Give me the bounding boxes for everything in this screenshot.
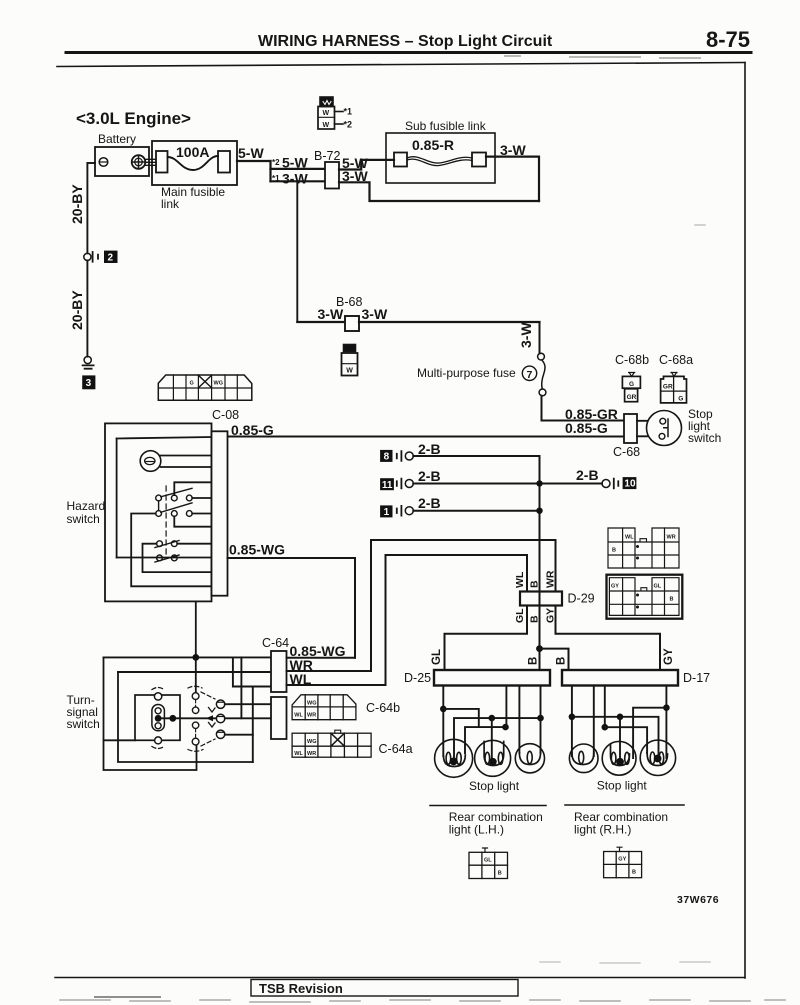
wire H1 to contact 2 column bbox=[240, 657, 242, 718]
svg-text:C-68a: C-68a bbox=[659, 353, 693, 367]
svg-text:TSB Revision: TSB Revision bbox=[259, 981, 343, 996]
arrow contact 1 bbox=[216, 700, 224, 708]
inner boundary left/bottom bbox=[118, 672, 253, 762]
sub fusible element wavy bbox=[407, 157, 472, 163]
svg-text:3: 3 bbox=[86, 378, 92, 389]
footer rule bbox=[55, 977, 745, 979]
lamp wires bbox=[161, 456, 212, 468]
svg-text:0.85-G: 0.85-G bbox=[565, 420, 608, 436]
wire B through D-29 down bbox=[539, 606, 541, 671]
svg-text:3-W: 3-W bbox=[362, 306, 388, 322]
wire GY to D-17 bbox=[556, 606, 661, 671]
TSB Revision box bbox=[251, 980, 518, 997]
stop light bulb 2 bbox=[475, 740, 511, 776]
eyelet row 10 bbox=[602, 480, 610, 488]
stop light switch SW1 bbox=[647, 411, 682, 446]
page border top bbox=[57, 63, 745, 67]
LH pin wire to bulb3 bbox=[518, 686, 520, 754]
pill contacts bbox=[155, 708, 161, 714]
ground ref marker 1 bbox=[380, 505, 392, 517]
bracket RH bbox=[565, 804, 684, 806]
LH ground bus bbox=[454, 718, 541, 761]
svg-text:GL: GL bbox=[654, 584, 662, 590]
linkage dashed bbox=[165, 486, 167, 558]
contact 1 wire bbox=[225, 703, 271, 705]
svg-text:GR: GR bbox=[663, 383, 673, 390]
LH dot B pin bbox=[537, 715, 544, 722]
fusible element wavy bbox=[168, 156, 219, 170]
wire 20-BY upper bbox=[86, 163, 88, 253]
hazard switch contacts upper bbox=[156, 495, 162, 501]
svg-text:*2: *2 bbox=[344, 120, 353, 130]
wire hazard to turn signal bbox=[195, 601, 197, 692]
hazard connector bar bbox=[212, 431, 228, 595]
hazard lamp L1 bbox=[140, 451, 161, 472]
slider bottom contact bbox=[155, 737, 162, 744]
eyelet row 11 bbox=[397, 479, 402, 489]
stop light bulb 1 bbox=[435, 739, 473, 777]
pivot dashed links bbox=[195, 700, 197, 738]
wires C-68 to switch bbox=[637, 421, 647, 437]
svg-text:WL: WL bbox=[625, 535, 634, 541]
LH pin wire bbox=[505, 686, 507, 728]
pivot column circles bbox=[192, 693, 199, 700]
svg-text:3-W: 3-W bbox=[342, 168, 368, 184]
svg-text:*1: *1 bbox=[272, 174, 280, 183]
svg-text:B: B bbox=[556, 657, 568, 665]
wire split node bbox=[269, 161, 271, 181]
RH junction dot bbox=[569, 714, 576, 721]
LH B pin wire bbox=[540, 686, 542, 754]
svg-text:3-W: 3-W bbox=[518, 322, 534, 348]
stop light bulb 3 bbox=[515, 744, 544, 773]
circled 7 bbox=[522, 366, 536, 380]
wire GL to D-25 bbox=[445, 606, 528, 671]
LH jog wire bbox=[443, 709, 479, 727]
sub fusible link box bbox=[386, 133, 495, 183]
RH dot bulb5 feed bbox=[617, 714, 624, 721]
stop light bulb 5 bbox=[602, 741, 636, 775]
page border right bbox=[744, 63, 746, 979]
svg-text:B: B bbox=[528, 657, 540, 665]
multi-purpose fuse symbol bbox=[538, 353, 545, 360]
wire 3-W right of B-72 bbox=[339, 182, 539, 201]
ground ref marker 2 bbox=[104, 251, 118, 263]
battery minus terminal bbox=[99, 158, 108, 167]
turn signal slider box bbox=[135, 695, 180, 740]
pin icon rear combination LH bbox=[469, 848, 508, 879]
hazard switch contacts lower bbox=[157, 541, 163, 547]
svg-text:1: 1 bbox=[384, 507, 390, 518]
wire to C-64 pin1 bbox=[104, 656, 272, 658]
wire jog to contact 3 bbox=[252, 687, 254, 763]
connector D-17 bbox=[562, 670, 678, 686]
svg-text:switch: switch bbox=[67, 717, 100, 731]
svg-text:2-B: 2-B bbox=[418, 468, 441, 484]
svg-text:37W676: 37W676 bbox=[677, 894, 719, 906]
ground ref marker 11 bbox=[380, 478, 394, 490]
svg-text:B-72: B-72 bbox=[314, 149, 340, 163]
main fusible link right terminal bbox=[218, 151, 230, 173]
pin grid icon C-64a bbox=[292, 730, 371, 757]
RH ground bus bbox=[572, 717, 659, 758]
wire B branch to D-17 bbox=[540, 649, 569, 670]
connector icon C-68b bbox=[629, 373, 635, 377]
contact 3 wire bbox=[225, 734, 253, 736]
svg-text:0.85-G: 0.85-G bbox=[231, 422, 274, 438]
wire 2-B to ground 10 bbox=[540, 483, 603, 485]
wire WR from C-64 bbox=[287, 670, 372, 672]
wire 0.85-G inside hazard bbox=[117, 437, 212, 439]
svg-text:D-25: D-25 bbox=[404, 671, 431, 685]
svg-text:switch: switch bbox=[688, 431, 721, 445]
wire 3-W down to multi-purpose fuse bbox=[539, 322, 541, 353]
eyelet row 8 bbox=[397, 451, 402, 461]
wire battery negative to left bbox=[87, 162, 95, 164]
battery B1 bbox=[95, 147, 149, 176]
connector C-64 lower bar bbox=[271, 697, 287, 739]
pin icon rear combination RH bbox=[604, 847, 642, 878]
junction dot bbox=[536, 480, 542, 486]
wire *1 3-W branch bbox=[271, 180, 326, 182]
svg-text:20-BY: 20-BY bbox=[69, 290, 85, 330]
svg-text:link: link bbox=[161, 197, 180, 211]
svg-text:C-64: C-64 bbox=[262, 636, 289, 650]
svg-text:WL: WL bbox=[290, 671, 312, 687]
wire into B-68 bbox=[297, 321, 345, 323]
svg-text:GR: GR bbox=[627, 394, 637, 401]
svg-text:WR: WR bbox=[667, 535, 676, 541]
svg-text:WR: WR bbox=[545, 570, 557, 588]
wire B trunk down bbox=[539, 456, 541, 592]
battery to fusible link bus bbox=[146, 159, 157, 165]
wire row 11 bbox=[413, 483, 539, 485]
svg-text:G: G bbox=[629, 381, 634, 388]
slider pill bbox=[152, 705, 165, 731]
connector B-72 bbox=[325, 162, 339, 189]
svg-text:B: B bbox=[529, 580, 541, 588]
svg-text:GL: GL bbox=[514, 608, 526, 623]
connector pin icon below B-68 bbox=[344, 345, 356, 352]
junction dot bbox=[192, 654, 199, 661]
wire 3-W from sub fusible link bbox=[486, 157, 539, 201]
svg-text:10: 10 bbox=[624, 479, 636, 490]
sub fusible right terminal bbox=[472, 153, 486, 167]
wire WL from C-64 bbox=[287, 684, 386, 686]
svg-text:100A: 100A bbox=[176, 144, 209, 160]
connector D-25 bbox=[434, 670, 550, 686]
svg-text:2-B: 2-B bbox=[576, 467, 599, 483]
svg-text:D-29: D-29 bbox=[568, 592, 595, 606]
pin grid icon D-25/D-17 bbox=[607, 575, 683, 619]
stop light bulb 6 bbox=[640, 740, 675, 775]
wire row 8 bbox=[413, 455, 539, 457]
hazard switch outer box bbox=[105, 423, 212, 601]
switch blades upper bbox=[161, 488, 192, 512]
svg-text:<3.0L Engine>: <3.0L Engine> bbox=[76, 109, 191, 128]
svg-text:B: B bbox=[632, 870, 636, 876]
svg-text:Sub fusible link: Sub fusible link bbox=[405, 119, 487, 133]
wire pill to contact 2 with arrow bbox=[162, 717, 217, 719]
svg-text:C-64a: C-64a bbox=[379, 742, 413, 756]
svg-text:8-75: 8-75 bbox=[706, 27, 750, 52]
svg-text:20-BY: 20-BY bbox=[69, 184, 85, 224]
wire WL riser bbox=[386, 555, 528, 685]
RH pin wire w/ branch bbox=[604, 686, 606, 728]
svg-text:3-W: 3-W bbox=[282, 171, 308, 187]
svg-text:Hazard: Hazard bbox=[67, 499, 106, 513]
svg-text:WG: WG bbox=[214, 380, 223, 386]
svg-text:Battery: Battery bbox=[98, 132, 136, 146]
svg-text:2-B: 2-B bbox=[418, 495, 441, 511]
ground ref marker 8 bbox=[380, 450, 392, 462]
pin grid icon D-29 bbox=[608, 528, 679, 568]
connector D-29 bbox=[520, 592, 562, 606]
svg-text:light (L.H.): light (L.H.) bbox=[449, 823, 504, 837]
wire row 1 bbox=[413, 510, 539, 512]
arrow contact 2 bbox=[216, 714, 224, 722]
svg-text:*2: *2 bbox=[272, 158, 280, 167]
svg-text:WL: WL bbox=[514, 571, 526, 588]
title underline bbox=[66, 51, 751, 54]
scan noise bottom bbox=[60, 1000, 785, 1002]
svg-text:light (R.H.): light (R.H.) bbox=[574, 823, 631, 837]
wire WL jog bbox=[233, 657, 271, 686]
dashed guide arcs bbox=[188, 686, 202, 688]
svg-text:GY: GY bbox=[618, 857, 626, 863]
main fusible link left terminal bbox=[156, 151, 168, 173]
wire 20-BY lower bbox=[86, 261, 88, 357]
svg-text:W: W bbox=[323, 122, 330, 129]
RH pin wire bulb4 bbox=[593, 686, 595, 757]
wire 3-W down to B-68 bbox=[296, 181, 298, 322]
svg-text:GY: GY bbox=[663, 648, 675, 665]
wire to C-64 pin2 / inner top bbox=[118, 671, 271, 673]
ground ref marker 3 bbox=[82, 375, 95, 389]
eyelet row 1 bbox=[397, 506, 402, 516]
svg-text:G: G bbox=[678, 396, 683, 403]
battery plus terminal bbox=[132, 155, 146, 169]
LH junction dot bbox=[502, 724, 509, 731]
svg-text:WG: WG bbox=[307, 701, 316, 707]
pin grid icon C-64b bbox=[292, 695, 356, 720]
wire B-68 to fuse column bbox=[359, 321, 540, 323]
connector C-68 bbox=[624, 414, 637, 443]
svg-text:11: 11 bbox=[382, 480, 393, 491]
svg-text:GL: GL bbox=[431, 649, 443, 665]
svg-text:7: 7 bbox=[527, 369, 533, 381]
switch blades lower bbox=[155, 541, 179, 563]
wire 0.85-G hazard to C-68 bbox=[228, 436, 625, 438]
wire B inside D-29 bbox=[539, 592, 541, 606]
wire 0.85-WG output bbox=[228, 558, 356, 658]
dashed diagonals bbox=[201, 692, 215, 699]
body ground eyelet 3 bbox=[84, 356, 91, 363]
ground ref marker 10 bbox=[623, 477, 637, 489]
wire WR riser bbox=[371, 540, 556, 671]
svg-text:WL: WL bbox=[294, 713, 303, 719]
svg-text:GL: GL bbox=[484, 858, 492, 864]
contact 2 wire bbox=[225, 717, 271, 719]
wire 0.85-WG from C-64 bbox=[287, 657, 356, 659]
svg-text:8: 8 bbox=[384, 452, 390, 463]
svg-text:WIRING HARNESS – Stop Light Ci: WIRING HARNESS – Stop Light Circuit bbox=[258, 33, 553, 50]
svg-text:5-W: 5-W bbox=[282, 155, 308, 171]
bracket LH bbox=[430, 805, 546, 807]
wire 5-W from main fusible link bbox=[237, 160, 271, 162]
svg-text:2-B: 2-B bbox=[418, 441, 441, 457]
svg-text:WL: WL bbox=[294, 751, 303, 757]
svg-text:2: 2 bbox=[108, 252, 114, 263]
wires upper group bbox=[174, 482, 211, 495]
svg-text:G: G bbox=[190, 380, 194, 386]
wire 0.85-WG inside hazard bbox=[117, 557, 212, 559]
svg-text:Stop light: Stop light bbox=[469, 779, 520, 793]
LH branch wire bbox=[465, 727, 506, 753]
svg-text:0.85-R: 0.85-R bbox=[412, 137, 454, 153]
junction dot B bbox=[536, 645, 543, 652]
LH dot bulb2 feed bbox=[489, 715, 496, 722]
RH wire B down bbox=[571, 686, 573, 757]
svg-text:C-68b: C-68b bbox=[615, 353, 649, 367]
wire 5-W right of B-72 bbox=[339, 160, 394, 170]
slider top contact bbox=[154, 693, 161, 700]
svg-text:C-68: C-68 bbox=[613, 445, 640, 459]
stop light bulb 4 bbox=[569, 744, 598, 773]
svg-text:D-17: D-17 bbox=[683, 671, 710, 685]
svg-text:Stop light: Stop light bbox=[597, 779, 648, 793]
svg-text:W: W bbox=[323, 110, 330, 117]
connector B-68 bbox=[345, 316, 359, 331]
scan noise top bbox=[505, 56, 700, 58]
sub fusible left terminal bbox=[394, 153, 407, 167]
connector icon C-68a bbox=[671, 373, 677, 377]
wire left boundary to slider bbox=[104, 739, 136, 741]
svg-text:*1: *1 bbox=[344, 107, 353, 117]
main fusible link box bbox=[152, 141, 237, 185]
wire fuse to 0.85-GR bbox=[542, 396, 625, 421]
svg-text:5-W: 5-W bbox=[238, 145, 264, 161]
svg-text:B: B bbox=[670, 597, 674, 603]
svg-text:B: B bbox=[498, 871, 502, 877]
svg-text:B: B bbox=[612, 548, 616, 554]
hazard inner boundary bbox=[116, 439, 118, 558]
connector strip C-08 bbox=[158, 375, 252, 400]
LH junction dot bbox=[440, 706, 447, 713]
turn signal outer boundary bbox=[104, 657, 197, 770]
svg-text:GY: GY bbox=[611, 584, 619, 590]
wire *2 5-W branch bbox=[271, 168, 326, 170]
junction dot bbox=[536, 508, 542, 514]
LH wire GL down bbox=[442, 686, 444, 757]
svg-text:WG: WG bbox=[307, 739, 316, 745]
svg-text:C-64b: C-64b bbox=[366, 701, 400, 715]
svg-text:WR: WR bbox=[307, 751, 316, 757]
RH GY pin wire bbox=[665, 686, 667, 759]
wires lower group bbox=[143, 544, 212, 572]
svg-text:switch: switch bbox=[67, 512, 100, 526]
svg-text:3-W: 3-W bbox=[500, 142, 526, 158]
arrow contact 3 bbox=[216, 730, 224, 738]
svg-text:WR: WR bbox=[307, 713, 316, 719]
dashed arcs bbox=[152, 688, 164, 690]
connector C-64 upper bar bbox=[271, 651, 287, 692]
svg-text:W: W bbox=[346, 368, 353, 375]
svg-text:C-08: C-08 bbox=[212, 408, 239, 422]
connector pin icon *1/*2 bbox=[320, 97, 333, 107]
svg-text:3-W: 3-W bbox=[318, 306, 344, 322]
body ground eyelet 2 bbox=[84, 253, 91, 260]
svg-text:Multi-purpose fuse: Multi-purpose fuse bbox=[417, 366, 516, 380]
svg-text:0.85-WG: 0.85-WG bbox=[229, 542, 285, 558]
motion arrows bbox=[209, 708, 216, 713]
